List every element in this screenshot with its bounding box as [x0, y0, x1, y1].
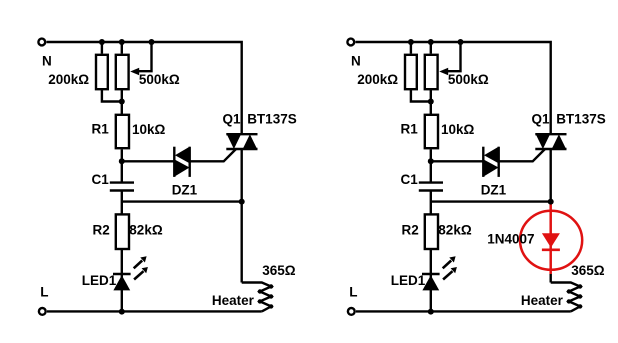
svg-text:R1: R1: [401, 122, 419, 137]
wire: 200k bottom to rail (right circuit): [411, 89, 431, 101]
LED LED1 (left circuit): [113, 273, 131, 275]
triac Q1 BT137S (left circuit): [226, 133, 257, 135]
LED1 emission arrows (left circuit): [134, 261, 143, 269]
svg-text:L: L: [40, 285, 48, 300]
node: junction 200k/500k/R1 (right circuit): [428, 99, 434, 105]
svg-text:BT137S: BT137S: [556, 112, 606, 127]
wire: DZ1 to Q1 gate (right circuit): [499, 149, 545, 161]
diac DZ1 (left circuit): [173, 147, 175, 177]
pot wiper arrow (left circuit): [139, 42, 152, 71]
node: junction 200k/500k/R1 (left circuit): [119, 99, 125, 105]
highlight circle around 1N4007 (red): [520, 211, 582, 270]
svg-text:C1: C1: [92, 172, 110, 187]
wire: Q1 to heater (left circuit): [240, 149, 242, 283]
resistor R1 10kΩ (right circuit): [425, 115, 438, 148]
wire: C1 bottom to R2 (right circuit): [430, 191, 432, 215]
svg-text:500kΩ: 500kΩ: [139, 72, 180, 87]
diac DZ1 (right circuit): [482, 147, 484, 177]
potentiometer 500kΩ (left circuit): [121, 42, 123, 54]
resistor R2 82kΩ (right circuit): [425, 214, 438, 249]
wire: junction to DZ1 (right circuit): [431, 160, 484, 162]
svg-text:365Ω: 365Ω: [571, 263, 605, 278]
node: top of 200k resistor (left circuit): [99, 39, 105, 45]
LED LED1 (right circuit): [422, 273, 440, 275]
capacitor C1 (left circuit): [110, 181, 134, 183]
wire: R2 bottom to LED1 (right circuit): [430, 249, 432, 311]
wire: bottom rail L to heater (right circuit): [356, 310, 571, 312]
wire: R1 bottom to C1 (left circuit): [121, 149, 123, 182]
svg-text:LED1: LED1: [82, 273, 117, 288]
resistor R2 82kΩ (left circuit): [116, 214, 129, 249]
wire: DZ1 to Q1 gate (left circuit): [190, 149, 236, 161]
svg-text:Heater: Heater: [521, 293, 564, 308]
node: pot wiper tap (right circuit): [458, 39, 464, 45]
wire: pot bottom to R1 (left circuit): [121, 89, 123, 115]
node: pot wiper tap (left circuit): [149, 39, 155, 45]
svg-text:DZ1: DZ1: [481, 183, 507, 198]
node: top of 500k pot (right circuit): [428, 39, 434, 45]
resistor 200kΩ (left circuit): [101, 42, 103, 54]
svg-text:500kΩ: 500kΩ: [448, 72, 489, 87]
wire: 1N4007 cathode to heater (right circuit): [550, 274, 552, 283]
node: R1/DZ1/C1 junction (left circuit): [119, 158, 125, 164]
wire: R2 bottom to LED1 (left circuit): [121, 249, 123, 311]
heater element 365Ω (right circuit): [551, 283, 580, 312]
terminal L (left circuit): [39, 308, 46, 315]
svg-text:DZ1: DZ1: [172, 183, 198, 198]
terminal N (right circuit): [347, 39, 354, 46]
node: R1/DZ1/C1 junction (right circuit): [428, 158, 434, 164]
svg-text:10kΩ: 10kΩ: [441, 122, 475, 137]
capacitor C1 (right circuit): [419, 181, 443, 183]
pot wiper arrow (right circuit): [448, 42, 461, 71]
wire: C1 bottom branch to Q1 main line (right circuit): [431, 200, 551, 202]
svg-text:1N4007: 1N4007: [487, 232, 534, 247]
resistor 200kΩ (right circuit): [410, 42, 412, 54]
triac Q1 BT137S (right circuit): [535, 133, 566, 135]
node: top of 200k resistor (right circuit): [408, 39, 414, 45]
wire: pot bottom to R1 (right circuit): [430, 89, 432, 115]
wire: Q1 to 1N4007 anode (right circuit): [550, 149, 552, 203]
node: top of 500k pot (left circuit): [119, 39, 125, 45]
svg-text:200kΩ: 200kΩ: [48, 72, 89, 87]
wire: C1 bottom to R2 (left circuit): [121, 191, 123, 215]
terminal L (right circuit): [348, 308, 355, 315]
wire: N terminal to Q1 top (left circuit): [47, 42, 242, 134]
diode 1N4007 (red): [549, 203, 552, 275]
wire: junction to DZ1 (left circuit): [122, 160, 175, 162]
svg-text:365Ω: 365Ω: [262, 263, 296, 278]
svg-text:R2: R2: [93, 223, 110, 238]
node: main line / C1 branch (left circuit): [239, 199, 245, 205]
svg-text:82kΩ: 82kΩ: [438, 223, 472, 238]
svg-text:C1: C1: [401, 172, 419, 187]
potentiometer 500kΩ (right circuit): [430, 42, 432, 54]
node: LED1 / bottom rail (right circuit): [428, 309, 434, 315]
wire: R1 bottom to C1 (right circuit): [430, 149, 432, 182]
svg-text:10kΩ: 10kΩ: [132, 122, 166, 137]
wire: bottom rail L to heater (left circuit): [47, 310, 262, 312]
node: LED1 / bottom rail (left circuit): [119, 309, 125, 315]
svg-text:Q1: Q1: [532, 112, 551, 127]
svg-text:N: N: [351, 53, 361, 68]
svg-text:BT137S: BT137S: [247, 112, 297, 127]
wire: 200k bottom to rail (left circuit): [102, 89, 122, 101]
svg-text:Heater: Heater: [212, 293, 255, 308]
svg-text:R2: R2: [402, 223, 419, 238]
svg-text:N: N: [42, 53, 52, 68]
svg-text:LED1: LED1: [391, 273, 426, 288]
svg-text:200kΩ: 200kΩ: [357, 72, 398, 87]
svg-text:R1: R1: [92, 122, 110, 137]
svg-text:Q1: Q1: [223, 112, 242, 127]
resistor R1 10kΩ (left circuit): [116, 115, 129, 148]
svg-text:82kΩ: 82kΩ: [129, 223, 163, 238]
wire: C1 bottom branch to Q1 main line (left circuit): [122, 200, 242, 202]
terminal N (left circuit): [38, 39, 45, 46]
node: main line / C1 branch (right circuit): [548, 199, 554, 205]
wire: N terminal to Q1 top (right circuit): [356, 42, 551, 134]
svg-text:L: L: [349, 285, 357, 300]
heater element 365Ω (left circuit): [242, 283, 271, 312]
LED1 emission arrows (right circuit): [443, 261, 452, 269]
